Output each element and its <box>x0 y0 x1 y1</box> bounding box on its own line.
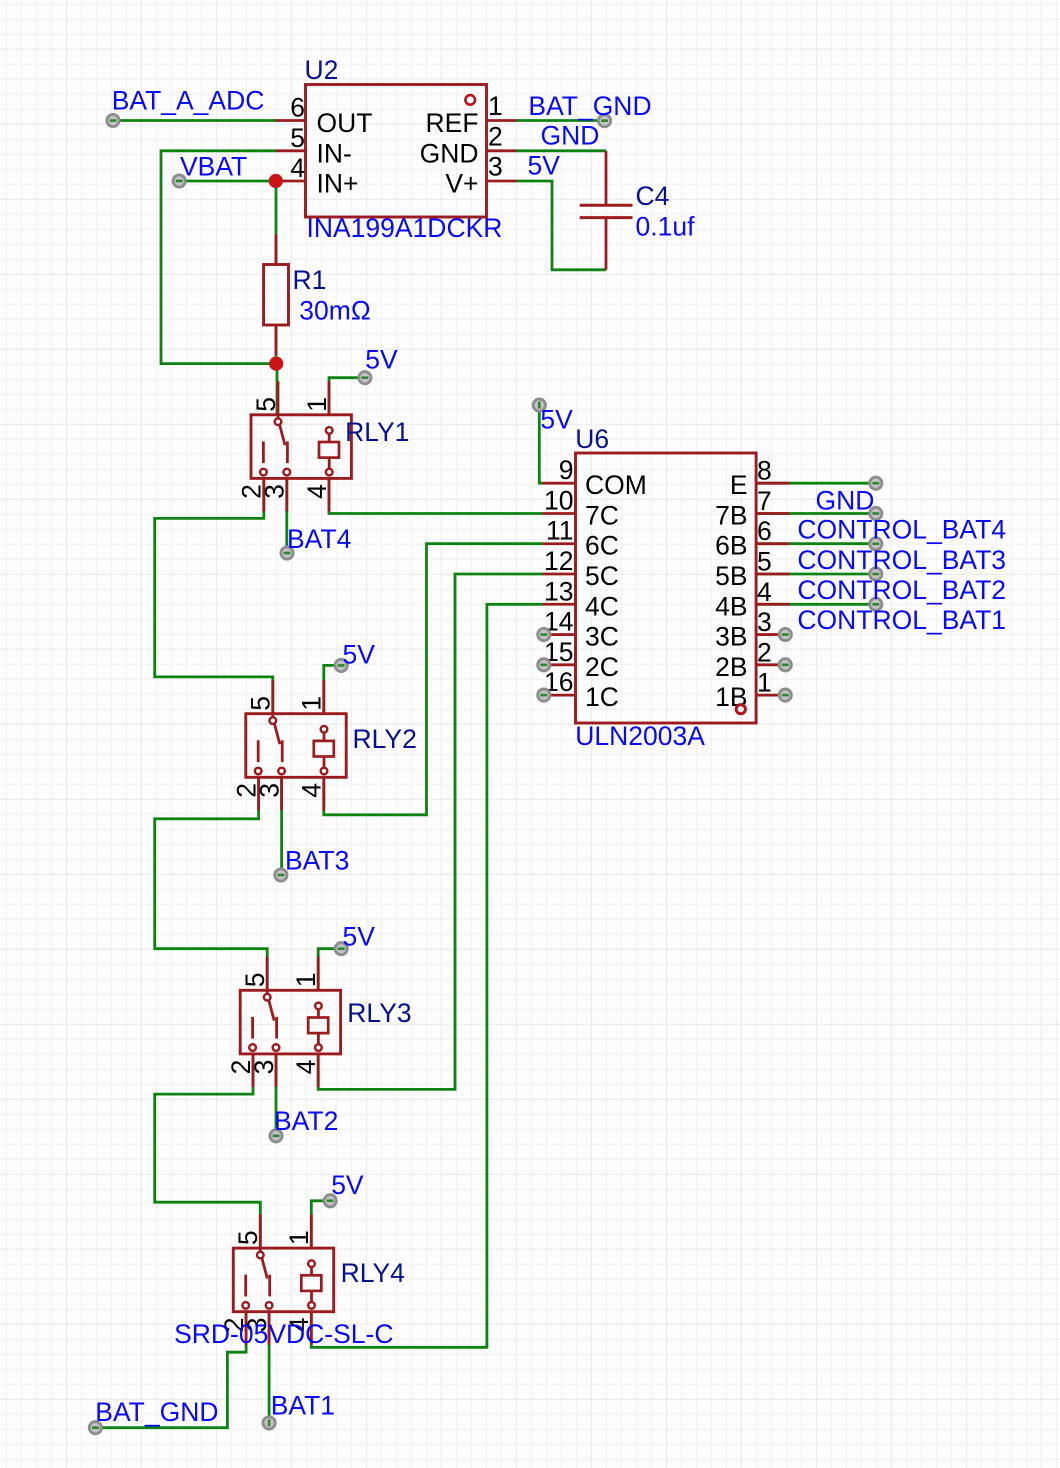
svg-text:3: 3 <box>249 1060 279 1075</box>
svg-text:5: 5 <box>251 397 281 412</box>
svg-text:7: 7 <box>757 486 772 516</box>
svg-text:5V: 5V <box>528 150 561 180</box>
svg-text:6: 6 <box>290 93 305 123</box>
svg-text:6C: 6C <box>585 531 619 561</box>
svg-text:5C: 5C <box>585 561 619 591</box>
svg-text:6B: 6B <box>715 531 747 561</box>
svg-text:BAT1: BAT1 <box>271 1391 335 1421</box>
svg-text:5V: 5V <box>540 404 573 434</box>
svg-text:E: E <box>730 470 748 500</box>
svg-text:1: 1 <box>302 397 332 412</box>
svg-text:3: 3 <box>757 607 772 637</box>
svg-text:INA199A1DCKR: INA199A1DCKR <box>307 213 503 243</box>
svg-text:RLY3: RLY3 <box>347 998 411 1028</box>
svg-text:6: 6 <box>757 516 772 546</box>
svg-text:13: 13 <box>544 576 573 606</box>
svg-text:5V: 5V <box>365 344 398 374</box>
svg-text:4: 4 <box>302 484 332 499</box>
svg-text:ULN2003A: ULN2003A <box>575 721 705 751</box>
svg-text:CONTROL_BAT1: CONTROL_BAT1 <box>797 605 1006 635</box>
svg-text:1: 1 <box>757 668 772 698</box>
svg-text:BAT_GND: BAT_GND <box>95 1397 218 1427</box>
svg-text:12: 12 <box>544 546 573 576</box>
svg-text:30mΩ: 30mΩ <box>299 296 370 326</box>
svg-text:5: 5 <box>290 123 305 153</box>
svg-text:5B: 5B <box>715 561 747 591</box>
svg-text:1B: 1B <box>715 682 747 712</box>
svg-text:3: 3 <box>260 484 290 499</box>
svg-text:8: 8 <box>757 456 772 486</box>
svg-text:GND: GND <box>420 138 479 168</box>
svg-text:V+: V+ <box>445 169 478 199</box>
svg-text:REF: REF <box>426 108 479 138</box>
svg-text:5: 5 <box>233 1230 263 1245</box>
svg-text:1: 1 <box>488 91 503 121</box>
svg-text:2B: 2B <box>715 652 747 682</box>
svg-text:7C: 7C <box>585 500 619 530</box>
svg-text:4B: 4B <box>715 591 747 621</box>
svg-text:11: 11 <box>546 516 574 546</box>
svg-text:2C: 2C <box>585 652 619 682</box>
svg-text:CONTROL_BAT2: CONTROL_BAT2 <box>797 575 1006 605</box>
svg-text:7B: 7B <box>715 500 747 530</box>
svg-text:BAT_A_ADC: BAT_A_ADC <box>112 85 265 115</box>
svg-text:1C: 1C <box>585 682 619 712</box>
svg-text:4: 4 <box>757 577 772 607</box>
svg-text:1: 1 <box>284 1230 314 1245</box>
svg-text:CONTROL_BAT4: CONTROL_BAT4 <box>797 515 1006 545</box>
svg-text:3B: 3B <box>715 622 747 652</box>
svg-text:2: 2 <box>488 121 503 151</box>
svg-text:4C: 4C <box>585 591 619 621</box>
svg-text:5V: 5V <box>331 1170 364 1200</box>
svg-text:GND: GND <box>816 485 875 515</box>
svg-text:3: 3 <box>254 783 284 798</box>
svg-text:RLY1: RLY1 <box>345 417 409 447</box>
svg-text:BAT4: BAT4 <box>287 524 351 554</box>
svg-text:CONTROL_BAT3: CONTROL_BAT3 <box>797 545 1006 575</box>
svg-text:GND: GND <box>541 120 600 150</box>
svg-text:R1: R1 <box>293 265 327 295</box>
svg-text:U6: U6 <box>575 424 609 454</box>
svg-text:BAT_GND: BAT_GND <box>528 91 651 121</box>
svg-text:1: 1 <box>297 696 327 711</box>
svg-text:10: 10 <box>544 485 573 515</box>
svg-text:OUT: OUT <box>317 108 373 138</box>
svg-text:RLY4: RLY4 <box>341 1258 405 1288</box>
svg-text:4: 4 <box>297 783 327 798</box>
svg-text:3C: 3C <box>585 622 619 652</box>
svg-text:5V: 5V <box>343 640 376 670</box>
svg-text:9: 9 <box>559 455 574 485</box>
svg-text:5: 5 <box>757 547 772 577</box>
svg-text:COM: COM <box>585 470 647 500</box>
svg-text:U2: U2 <box>305 55 339 85</box>
svg-text:BAT2: BAT2 <box>274 1106 338 1136</box>
svg-text:4: 4 <box>290 153 305 183</box>
svg-text:5: 5 <box>246 696 276 711</box>
svg-text:2: 2 <box>757 637 772 667</box>
svg-text:IN-: IN- <box>317 138 352 168</box>
svg-text:SRD-05VDC-SL-C: SRD-05VDC-SL-C <box>174 1319 393 1349</box>
svg-text:5V: 5V <box>343 922 376 952</box>
svg-text:1: 1 <box>291 973 321 988</box>
svg-text:5: 5 <box>240 973 270 988</box>
svg-text:0.1uf: 0.1uf <box>636 212 696 242</box>
svg-text:C4: C4 <box>636 181 670 211</box>
svg-text:VBAT: VBAT <box>180 152 247 182</box>
svg-text:3: 3 <box>488 152 503 182</box>
svg-text:RLY2: RLY2 <box>353 724 417 754</box>
svg-text:BAT3: BAT3 <box>285 846 349 876</box>
svg-text:4: 4 <box>291 1060 321 1075</box>
svg-text:IN+: IN+ <box>317 169 359 199</box>
